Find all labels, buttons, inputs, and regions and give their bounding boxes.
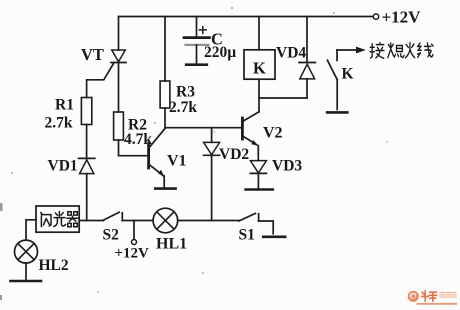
resistor R1 (45, 97, 92, 132)
wire VD1 to flasher node (86, 174, 88, 221)
thyristor VT (81, 45, 126, 98)
ground S1 (263, 236, 285, 239)
svg-text:S1: S1 (239, 227, 255, 244)
ground V1 emitter (155, 187, 175, 190)
svg-text:K: K (253, 59, 266, 78)
capacitor C1 (184, 27, 236, 64)
wire flasher to HL2 (26, 220, 36, 240)
wire S2 to HL1 (122, 220, 153, 222)
wire VD3 to ground (257, 173, 259, 188)
wire base bus V1 collector to V2 base (165, 127, 241, 129)
lamp HL1 (153, 208, 187, 252)
diode VD4 (276, 45, 315, 79)
flasher box 闪光器 (36, 206, 79, 232)
svg-text:HL2: HL2 (39, 257, 69, 274)
svg-text:+12V: +12V (115, 246, 150, 262)
switch S2 (103, 212, 123, 243)
svg-text:S2: S2 (103, 227, 120, 244)
wire VD4 drop from rail (306, 17, 308, 63)
resistor R3 (160, 81, 197, 116)
transistor V1 (149, 129, 187, 189)
ground VD3 (246, 188, 273, 191)
svg-text:V2: V2 (263, 125, 283, 142)
switch S1 (239, 213, 259, 243)
ground HL2 (11, 280, 42, 283)
svg-text:VD3: VD3 (272, 158, 302, 175)
wire C drop from rail (196, 17, 198, 38)
node +12V terminal (373, 14, 378, 19)
wire VD4 anode down (306, 79, 308, 98)
svg-text:VD4: VD4 (276, 45, 306, 62)
svg-text:VT: VT (81, 45, 104, 64)
diode VD3 (250, 158, 302, 175)
wire R3 drop from rail (164, 17, 166, 82)
闪 (41, 213, 51, 227)
svg-text:K: K (342, 66, 354, 83)
wire VT anode drop (118, 17, 120, 51)
火 (405, 43, 414, 58)
svg-text:2.7k: 2.7k (45, 115, 73, 132)
svg-text:+12V: +12V (382, 7, 422, 26)
resistor R2 (114, 112, 153, 148)
lamp HL2 (15, 240, 69, 274)
wire VT cathode to R2 (118, 63, 120, 113)
label 接熄火线 (to engine kill wire) (370, 43, 433, 59)
wire top +12V rail (119, 16, 373, 18)
器 (67, 212, 78, 227)
wire R1 to VD1 (86, 125, 88, 159)
光 (54, 212, 66, 227)
ground capacitor negative (186, 63, 207, 66)
svg-text:VD2: VD2 (219, 146, 249, 163)
svg-text:220µ: 220µ (204, 44, 236, 61)
svg-text:2.7k: 2.7k (169, 99, 197, 116)
node +12V feed tap (115, 221, 150, 262)
wire R3 to collector node (164, 108, 166, 128)
wire flasher to S2 (79, 220, 103, 222)
ground switch K (327, 111, 347, 114)
线 (418, 43, 434, 57)
熄 (388, 43, 404, 58)
diode VD1 (48, 158, 95, 175)
wire VD2 drop from base bus (211, 128, 213, 143)
scan noise specks (0, 7, 388, 300)
wire VD2 to lamp bus (211, 155, 213, 220)
wire HL1 to S1 (178, 220, 239, 222)
wire S1 to ground (259, 221, 274, 234)
svg-text:R3: R3 (176, 84, 195, 101)
watermark logo (408, 291, 457, 304)
svg-text:R1: R1 (55, 97, 74, 114)
svg-text:VD1: VD1 (48, 158, 78, 175)
wire relay bottom to V2 collector node (259, 79, 307, 98)
switch K (relay contact, to kill wire) (327, 47, 365, 110)
svg-text:HL1: HL1 (156, 236, 187, 253)
wire R2 to V1 base (119, 140, 148, 156)
svg-text:V1: V1 (167, 153, 187, 170)
wire relay drop from rail (258, 17, 260, 50)
diode VD2 (204, 142, 250, 163)
接 (370, 43, 384, 59)
wire HL2 to ground (25, 263, 27, 280)
transistor V2 (242, 98, 282, 160)
relay coil K (244, 50, 275, 79)
